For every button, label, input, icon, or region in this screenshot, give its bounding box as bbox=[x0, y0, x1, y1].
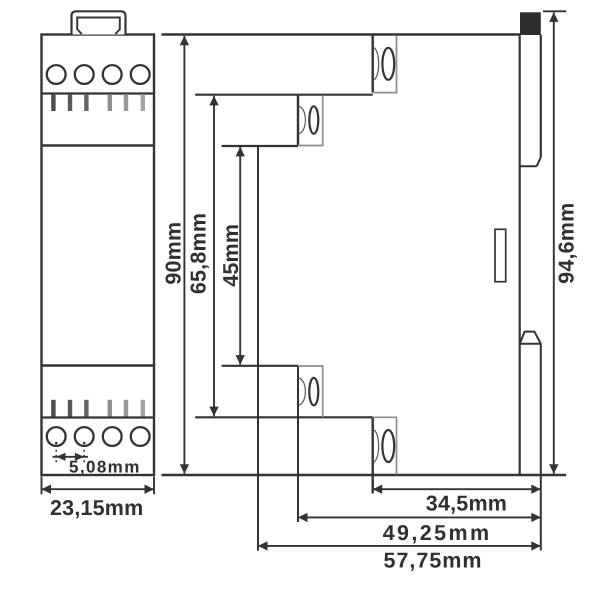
svg-text:34,5mm: 34,5mm bbox=[426, 491, 507, 515]
terminal box B2 gray outline bbox=[298, 366, 323, 417]
front view: upper vent slots bbox=[51, 94, 55, 111]
dimension 94,6mm line bbox=[553, 12, 555, 473]
side view: upper hook bottom bbox=[520, 165, 537, 167]
svg-text:23,15mm: 23,15mm bbox=[50, 496, 143, 520]
side view: main front face + extension bbox=[257, 146, 259, 551]
terminal box T1 clamp arc bbox=[373, 47, 379, 80]
front view: top mounting tab outer bbox=[72, 11, 126, 34]
front view: line over lower screws bbox=[42, 416, 155, 418]
svg-text:65,8mm: 65,8mm bbox=[187, 213, 211, 294]
terminal box T2 clamp arc bbox=[299, 107, 306, 134]
front view: lower terminal screw 1 bbox=[47, 427, 66, 446]
side view: lower hook shoulder bbox=[520, 343, 541, 345]
front view: module outline bbox=[42, 35, 155, 476]
dimension 90mm line bbox=[183, 36, 185, 474]
terminal box B1 screw ellipse bbox=[382, 430, 394, 462]
dimension 57,75mm line bbox=[258, 545, 541, 547]
side view: bottom edge bbox=[162, 474, 567, 476]
dashed extension line screw 1 bbox=[55, 450, 57, 464]
front view: lower section divider bbox=[42, 364, 155, 366]
svg-text:45mm: 45mm bbox=[219, 224, 243, 287]
front view: lower terminal screw 4 bbox=[131, 427, 150, 446]
side view: lower hook wedge bbox=[520, 332, 541, 344]
side view: upper hook chamfer bbox=[537, 157, 541, 166]
terminal box T1 gray outline bbox=[373, 36, 397, 93]
center mark dot screw 1 bbox=[55, 442, 58, 445]
terminal box T2 gray outline bbox=[298, 95, 323, 146]
front view: lower vent slots bbox=[51, 400, 55, 417]
side view: right edge upper bbox=[540, 35, 542, 158]
center mark dot screw 2 bbox=[83, 442, 86, 445]
side view: bottom step front face + extension bbox=[372, 417, 374, 493]
side view: right edge lower + extension bbox=[540, 344, 542, 551]
side view: DIN latch slider bbox=[495, 229, 506, 281]
front view: top mounting tab inner bbox=[77, 18, 120, 35]
dimension 49,25mm line bbox=[298, 516, 541, 518]
front view: line under upper screws bbox=[42, 92, 155, 94]
svg-text:94,6mm: 94,6mm bbox=[555, 203, 579, 284]
dimension 5,08mm line bbox=[53, 456, 89, 458]
side view: top step front face bbox=[372, 35, 374, 93]
side view: lower shoulder bbox=[195, 416, 373, 418]
terminal box B2 screw ellipse bbox=[309, 378, 318, 405]
terminal box T2 screw ellipse bbox=[309, 106, 318, 133]
dimension 23,15mm extension lines bbox=[41, 477, 43, 495]
front view: lower terminal screw 2 bbox=[75, 427, 94, 446]
side view: DIN clip (black) bbox=[520, 12, 541, 35]
side view: mid step front face upper bbox=[297, 95, 299, 146]
front view: upper terminal screw 4 bbox=[131, 65, 150, 84]
front view: upper terminal screw 1 bbox=[47, 65, 66, 84]
dimension 45mm line bbox=[239, 147, 241, 365]
terminal box B1 gray outline bbox=[373, 417, 397, 474]
side view: mid shoulder lower bbox=[222, 365, 298, 367]
side view: mid step front face lower + extension bbox=[297, 366, 299, 522]
dimension 23,15mm line bbox=[42, 488, 155, 490]
svg-text:5,08mm: 5,08mm bbox=[69, 458, 141, 477]
side view: top edge bbox=[162, 33, 521, 35]
svg-text:49,25mm: 49,25mm bbox=[383, 521, 492, 545]
side view: upper shoulder bbox=[195, 94, 373, 96]
terminal box T1 screw ellipse bbox=[382, 48, 394, 80]
terminal box B2 clamp arc bbox=[299, 378, 306, 405]
dimension 94,6mm extension line top bbox=[543, 10, 566, 12]
front view: upper section divider bbox=[42, 144, 155, 146]
svg-text:57,75mm: 57,75mm bbox=[384, 549, 483, 573]
front view: lower terminal screw 3 bbox=[103, 427, 122, 446]
side view: mid shoulder upper bbox=[222, 145, 298, 147]
dimension 34,5mm line bbox=[373, 488, 541, 490]
terminal box B1 clamp arc bbox=[373, 430, 379, 463]
side view: back wall bbox=[519, 35, 521, 476]
dashed extension line screw 2 bbox=[83, 450, 85, 464]
front view: upper terminal screw 2 bbox=[75, 65, 94, 84]
front view: upper terminal screw 3 bbox=[103, 65, 122, 84]
svg-text:90mm: 90mm bbox=[162, 222, 186, 285]
dimension 65,8mm line bbox=[213, 96, 215, 416]
